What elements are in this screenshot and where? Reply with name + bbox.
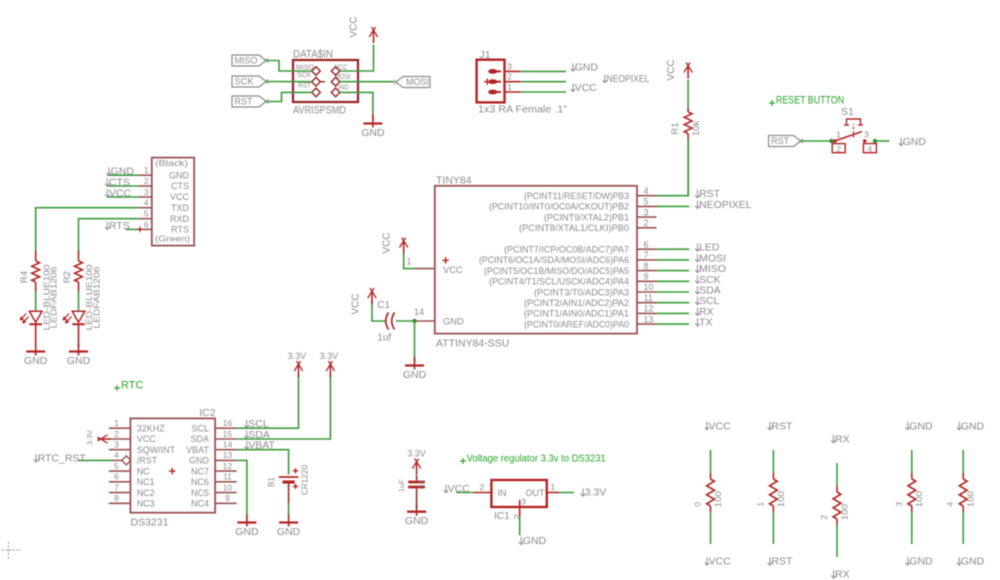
svg-text:2: 2 (144, 176, 149, 186)
svg-text:6: 6 (644, 239, 649, 249)
wire VBAT to battery (237, 450, 289, 475)
pin 16 SCL of IC2 (215, 427, 237, 429)
pin 11 NC6 of IC2 (215, 481, 237, 483)
wire from R1 down to RST net (687, 139, 689, 196)
svg-text:(Green): (Green) (155, 234, 190, 244)
svg-text:IC2: IC2 (199, 407, 216, 419)
svg-text:SQW/INT: SQW/INT (137, 445, 176, 455)
pin 8 NC3 of IC2 (109, 502, 130, 504)
pin 15 SDA of IC2 (215, 438, 237, 440)
net label GND (900, 138, 902, 146)
svg-text:Voltage regulator 3.3v to DS32: Voltage regulator 3.3v to DS3231 (467, 454, 606, 465)
wire (911, 512, 913, 544)
svg-text:8: 8 (644, 261, 649, 271)
ground (288, 515, 290, 527)
svg-text:GND: GND (405, 515, 429, 527)
svg-text:11: 11 (644, 293, 653, 303)
resistor R4 (35, 251, 37, 261)
svg-text:RTS: RTS (109, 220, 130, 232)
svg-text:3.3V: 3.3V (407, 448, 426, 458)
net label MOSI flag (396, 77, 430, 88)
svg-text:100: 100 (776, 491, 786, 507)
net label TX (697, 318, 699, 326)
svg-text:SCK: SCK (297, 72, 311, 79)
battery B1 CR1220 (279, 476, 299, 478)
svg-text:DATA$IN: DATA$IN (293, 49, 333, 61)
wire (772, 512, 774, 544)
svg-text:1: 1 (114, 418, 119, 428)
svg-text:(PCINT2/AIN1/ADC2)PA2: (PCINT2/AIN1/ADC2)PA2 (524, 298, 629, 308)
svg-text:100: 100 (966, 491, 976, 507)
wire MISO (266, 61, 312, 72)
svg-text:(PCINT3/T0/ADC3)PA3: (PCINT3/T0/ADC3)PA3 (534, 287, 629, 297)
svg-text:3.3V: 3.3V (87, 430, 94, 445)
net label NEOPIXEL (604, 75, 606, 83)
pin 13 GND of IC2 (215, 459, 237, 461)
svg-text:VBAT: VBAT (186, 445, 209, 455)
wire MOSI (657, 259, 690, 261)
svg-text:GND: GND (24, 355, 48, 367)
supply VCC arrow at pin 1 (403, 240, 405, 254)
pad RST (312, 88, 321, 97)
svg-text:1: 1 (507, 82, 512, 92)
net label RST flag (232, 96, 266, 107)
svg-text:C1: C1 (377, 300, 390, 311)
wire TX (657, 323, 690, 325)
svg-text:IN: IN (498, 488, 507, 498)
net label GND (top) (958, 422, 960, 430)
pad VCC (331, 67, 340, 76)
pin 2 of J1 (505, 81, 521, 83)
svg-text:8: 8 (114, 493, 119, 503)
ground (78, 344, 80, 356)
wire RXD to LED R2 (79, 219, 139, 252)
pin 3 GND of regulator (519, 500, 521, 517)
svg-text:13: 13 (223, 450, 233, 460)
origin cross (2, 549, 21, 551)
resistor 4 100 (962, 473, 964, 479)
svg-text:9: 9 (644, 272, 649, 282)
svg-text:GND: GND (189, 456, 210, 466)
pin 3 SQW/INT of IC2 (109, 449, 130, 451)
svg-text:GND: GND (909, 556, 933, 568)
svg-text:1uf: 1uf (377, 333, 391, 344)
wire RX (657, 312, 690, 314)
resistor R2 (78, 251, 80, 261)
LED D1 (72, 311, 85, 322)
svg-text:TINY84: TINY84 (436, 175, 472, 187)
svg-text:R4: R4 (19, 271, 30, 283)
wire to GND label (875, 140, 889, 142)
svg-text:RTS: RTS (171, 225, 189, 235)
wire (710, 450, 712, 473)
wire SCK (657, 280, 690, 282)
svg-text:RX: RX (835, 433, 850, 445)
junction (829, 139, 833, 143)
svg-text:13: 13 (644, 314, 654, 324)
ground (416, 504, 418, 516)
svg-text:7: 7 (644, 250, 649, 260)
svg-text:1: 1 (406, 257, 411, 267)
svg-text:(PCINT4/T1/SCL/USCK/ADC4)PA4: (PCINT4/T1/SCL/USCK/ADC4)PA4 (489, 277, 629, 287)
svg-text:2: 2 (480, 482, 485, 492)
svg-text:3: 3 (144, 187, 149, 197)
svg-text:LEDFAB1206: LEDFAB1206 (50, 266, 59, 329)
svg-text:VCC: VCC (443, 265, 463, 275)
comment text Voltage regulator (460, 460, 466, 462)
ground below AVRISPSMD (340, 92, 373, 115)
svg-text:4: 4 (644, 186, 649, 196)
svg-text:NC2: NC2 (137, 488, 155, 498)
svg-text:VCC: VCC (575, 82, 598, 94)
pin 5 NC of IC2 (109, 470, 130, 472)
net label MISO flag (232, 55, 266, 66)
pin 9 NC4 of IC2 (215, 502, 237, 504)
wire NEOPIXEL (657, 205, 690, 207)
pad SCK (312, 77, 321, 86)
svg-text:VCC: VCC (709, 420, 732, 432)
pin 2 VCC of IC2 (109, 438, 130, 440)
svg-text:R1: R1 (670, 122, 681, 134)
wire RST up to R1 (687, 139, 689, 196)
supply 3.3V arrow above SCL (298, 363, 300, 377)
svg-text:VCC: VCC (448, 483, 471, 495)
wire (35, 324, 37, 347)
net label VCC (top) (706, 422, 708, 430)
supply VCC arrow above R1 (687, 65, 689, 79)
svg-text:RST: RST (771, 556, 793, 568)
svg-text:SCL: SCL (191, 423, 209, 433)
wire 3.3V (559, 492, 574, 494)
wire (416, 489, 418, 509)
wire (78, 324, 80, 347)
pin 3 VCC of FTDI (138, 196, 152, 198)
wire (911, 450, 913, 473)
svg-text:7: 7 (114, 482, 119, 492)
pin 14 GND of TINY84 (415, 320, 435, 322)
ground (246, 515, 248, 527)
svg-text:1x3 RA Female .1": 1x3 RA Female .1" (478, 104, 567, 116)
net label SDA (246, 430, 248, 438)
svg-text:GND: GND (403, 369, 427, 381)
svg-text:VCC: VCC (382, 232, 393, 253)
pin 1 VCC of TINY84 (415, 268, 435, 270)
wire (710, 512, 712, 544)
comment text RESET BUTTON (769, 102, 775, 104)
svg-text:SCK: SCK (235, 77, 255, 88)
net label GND (520, 537, 522, 545)
wire SCL to 3.3V (237, 375, 299, 428)
svg-text:VCC: VCC (137, 434, 157, 444)
svg-text:VCC: VCC (709, 556, 732, 568)
svg-text:(PCINT1/AIN0/ADC1)PA1: (PCINT1/AIN0/ADC1)PA1 (524, 309, 629, 319)
svg-text:2: 2 (507, 72, 512, 82)
net label SCK flag (232, 76, 266, 87)
svg-text:RESET BUTTON: RESET BUTTON (776, 95, 844, 107)
wire MISO (657, 270, 690, 272)
svg-text:6: 6 (114, 472, 119, 482)
svg-text:1: 1 (836, 130, 841, 140)
svg-text:(PCINT9/XTAL2)PB1: (PCINT9/XTAL2)PB1 (544, 212, 629, 222)
svg-text:3: 3 (521, 497, 526, 507)
svg-text:OUT: OUT (526, 488, 546, 498)
wire NEOPIXEL from J1 pin2 (521, 81, 566, 83)
svg-text:GND: GND (169, 170, 190, 180)
ground (35, 344, 37, 356)
resistor 2 100 (836, 486, 838, 492)
LED D2 (29, 311, 42, 322)
wire GND (519, 517, 521, 536)
svg-text:3: 3 (114, 440, 119, 450)
svg-text:(PCINT0/AREF/ADC0)PA0: (PCINT0/AREF/ADC0)PA0 (524, 319, 629, 329)
svg-text:GND: GND (67, 355, 91, 367)
svg-text:10: 10 (644, 282, 654, 292)
svg-text:2: 2 (819, 515, 829, 520)
pin 4 TXD of FTDI (138, 207, 152, 209)
svg-text:3: 3 (644, 207, 649, 217)
svg-text:VCC: VCC (666, 59, 677, 80)
wire RST (657, 195, 690, 197)
svg-text:10k: 10k (691, 121, 702, 137)
wire TXD to LED R4 (36, 208, 139, 252)
svg-text:TXD: TXD (171, 203, 190, 213)
svg-text:14: 14 (414, 307, 424, 317)
wire (836, 463, 838, 486)
wire (962, 450, 964, 473)
net label GND (bottom) (907, 557, 909, 565)
svg-text:LEDFAB1206: LEDFAB1206 (92, 266, 101, 329)
svg-text:GND: GND (909, 420, 933, 432)
net label RX (bottom) (833, 570, 835, 578)
svg-text:NC: NC (137, 466, 150, 476)
svg-text:C2: C2 (418, 480, 427, 490)
net label RX (top) (833, 435, 835, 443)
svg-text:12: 12 (223, 461, 233, 471)
wire GND from J1 pin3 (521, 70, 566, 72)
svg-text:VCC: VCC (109, 188, 132, 200)
svg-text:/RST: /RST (137, 456, 158, 466)
net label VCC (bottom) (706, 557, 708, 565)
net label CTS + wire (107, 185, 138, 187)
supply 3.3V arrow at IC2 pin 2 (98, 438, 111, 440)
svg-text:0: 0 (693, 502, 703, 507)
net label SDA (697, 286, 699, 294)
wire SCK (266, 81, 312, 83)
net label RST (top) (769, 422, 771, 430)
svg-text:16: 16 (223, 418, 233, 428)
pin 3 of J1 (505, 70, 521, 72)
svg-text:100: 100 (839, 504, 849, 520)
wire VCC from J1 pin1 (521, 91, 566, 93)
svg-text:ATTINY84-SSU: ATTINY84-SSU (436, 338, 509, 350)
pin 1 32KHZ of IC2 (109, 427, 130, 429)
svg-text:(PCINT6/OC1A/SDA/MOSI/ADC6)PA6: (PCINT6/OC1A/SDA/MOSI/ADC6)PA6 (479, 255, 629, 265)
net label MOSI (697, 254, 699, 262)
svg-text:GND: GND (575, 62, 599, 74)
svg-text:32KHZ: 32KHZ (137, 423, 166, 433)
svg-text:2: 2 (114, 429, 119, 439)
svg-text:B1: B1 (267, 477, 276, 487)
svg-text:10: 10 (223, 482, 233, 492)
svg-text:RTC: RTC (121, 380, 143, 392)
wire (962, 512, 964, 544)
net label 3.3V (582, 488, 584, 496)
pin 1 OUT of regulator (547, 492, 559, 494)
svg-text:GND: GND (961, 420, 985, 432)
pin 1 of J1 (505, 91, 521, 93)
svg-text:14: 14 (223, 440, 233, 450)
wire SCL (657, 302, 690, 304)
svg-text:2: 2 (836, 145, 841, 154)
svg-text:NC4: NC4 (191, 499, 209, 509)
wire VCC (340, 45, 374, 72)
svg-text:5: 5 (644, 197, 649, 207)
svg-text:RX: RX (835, 569, 850, 580)
wire MOSI (340, 81, 394, 83)
svg-text:1: 1 (144, 165, 149, 175)
wire RST (266, 92, 312, 101)
net label SCK (697, 275, 699, 283)
switch pin 4 box (863, 144, 876, 153)
svg-text:3.3V: 3.3V (288, 351, 307, 361)
svg-text:4: 4 (144, 198, 149, 208)
supply VCC arrow above AVRISPSMD (373, 29, 375, 43)
svg-text:GND: GND (361, 127, 385, 139)
svg-text:GND: GND (523, 535, 547, 547)
svg-text:GND: GND (903, 136, 927, 148)
svg-text:GND: GND (961, 556, 985, 568)
wire to ground (414, 321, 416, 359)
net label RTC_RST + wire (78, 459, 112, 461)
net label GND (572, 63, 574, 71)
svg-text:3: 3 (894, 502, 904, 507)
wire RST to switch (801, 140, 835, 142)
resistor 1 100 (772, 473, 774, 479)
wire VCC (404, 254, 415, 269)
wire SDA (657, 291, 690, 293)
svg-text:NC1: NC1 (137, 477, 155, 487)
net label LED (697, 243, 699, 251)
net label MISO (697, 265, 699, 273)
svg-text:(PCINT5/OC1B/MISO/DO/ADC5)PA5: (PCINT5/OC1B/MISO/DO/ADC5)PA5 (484, 266, 629, 276)
wire (78, 292, 80, 311)
svg-text:VCC: VCC (349, 16, 360, 37)
svg-text:TX: TX (699, 317, 712, 329)
svg-text:RST: RST (235, 97, 253, 108)
net label RST flag (769, 136, 801, 147)
net label SCL (246, 420, 248, 428)
net label GND (top) (907, 422, 909, 430)
svg-text:(PCINT10/INT0/OC0A/CKOUT)PB2: (PCINT10/INT0/OC0A/CKOUT)PB2 (489, 202, 629, 212)
pin 6 RTS of FTDI (138, 228, 152, 230)
junction at pin 14 (412, 319, 416, 323)
net label RTS + wire (126, 228, 139, 230)
svg-text:RST: RST (298, 83, 312, 90)
svg-text:9: 9 (225, 493, 230, 503)
capacitor C2 1uF (408, 481, 425, 484)
regulator IC1 (491, 480, 546, 507)
svg-text:GND: GND (235, 526, 259, 538)
svg-text:GND: GND (277, 526, 301, 538)
ground below TINY84 (414, 357, 416, 362)
svg-text:5: 5 (114, 461, 119, 471)
supply VCC arrow left of C1 (371, 290, 373, 304)
svg-text:RXD: RXD (170, 214, 190, 224)
pin 14 VBAT of IC2 (215, 449, 237, 451)
wire VCC (456, 492, 474, 494)
wire LED (657, 248, 690, 250)
svg-text:VCC: VCC (351, 293, 362, 314)
svg-text:MOSI: MOSI (335, 74, 351, 81)
svg-text:VBAT: VBAT (248, 440, 275, 452)
svg-text:RST: RST (771, 420, 793, 432)
svg-text:1: 1 (550, 482, 555, 492)
svg-text:NC5: NC5 (191, 488, 209, 498)
svg-text:IC1: IC1 (494, 511, 510, 522)
pin 10 NC5 of IC2 (215, 492, 237, 494)
svg-text:CR1220: CR1220 (301, 464, 310, 495)
pin 4 /RST of IC2 (112, 459, 122, 461)
wire (372, 301, 385, 321)
pin 5 RXD of FTDI (138, 218, 152, 220)
supply 3.3V arrow above SDA (329, 363, 331, 377)
svg-text:SDA: SDA (190, 434, 209, 444)
svg-text:MOSI: MOSI (406, 77, 429, 88)
svg-text:4: 4 (868, 145, 873, 154)
svg-text:100: 100 (713, 491, 723, 507)
net label VCC (572, 84, 574, 92)
svg-text:(PCINT8/XTAL1/CLKI)PB0: (PCINT8/XTAL1/CLKI)PB0 (519, 223, 629, 233)
svg-text:(PCINT7/ICP/OC0B/ADC7)PA7: (PCINT7/ICP/OC0B/ADC7)PA7 (504, 245, 629, 255)
svg-text:4: 4 (114, 450, 119, 460)
svg-text:12: 12 (644, 304, 654, 314)
resistor 0 100 (710, 473, 712, 479)
svg-text:3.3V: 3.3V (320, 351, 339, 361)
pad GND (331, 88, 340, 97)
svg-text:1uF: 1uF (397, 479, 406, 492)
wire (35, 292, 37, 311)
pin 12 NC7 of IC2 (215, 470, 237, 472)
resistor 3 100 (911, 473, 913, 479)
svg-text:(PCINT11/RESET/DW)PB3: (PCINT11/RESET/DW)PB3 (524, 191, 629, 201)
net label GND + wire (107, 174, 138, 176)
wire (772, 450, 774, 473)
svg-text:DS3231: DS3231 (131, 517, 169, 529)
net label VCC + wire (107, 196, 138, 198)
net label RST (bottom) (769, 557, 771, 565)
svg-text:GND: GND (443, 316, 464, 326)
pin 2 CTS of FTDI (138, 185, 152, 187)
wire battery to ground (288, 484, 290, 504)
svg-text:3: 3 (507, 61, 512, 71)
wire GND from IC2 pin 13 (237, 460, 247, 516)
wire SDA to 3.3V (237, 375, 331, 439)
svg-text:3.3V: 3.3V (585, 487, 607, 499)
svg-text:100: 100 (914, 491, 924, 507)
svg-text:(Black): (Black) (155, 158, 188, 168)
net label NEOPIXEL (697, 200, 699, 208)
net label VBAT (246, 441, 248, 449)
net label RX (697, 307, 699, 315)
wire (836, 525, 838, 557)
net label RST (697, 190, 699, 198)
wire (687, 80, 689, 108)
svg-text:AVRISPSMD: AVRISPSMD (293, 105, 346, 117)
svg-text:RTC_RST: RTC_RST (38, 453, 87, 465)
pad MISO (312, 67, 321, 76)
svg-text:5: 5 (144, 209, 149, 219)
resistor R1 (687, 107, 689, 112)
